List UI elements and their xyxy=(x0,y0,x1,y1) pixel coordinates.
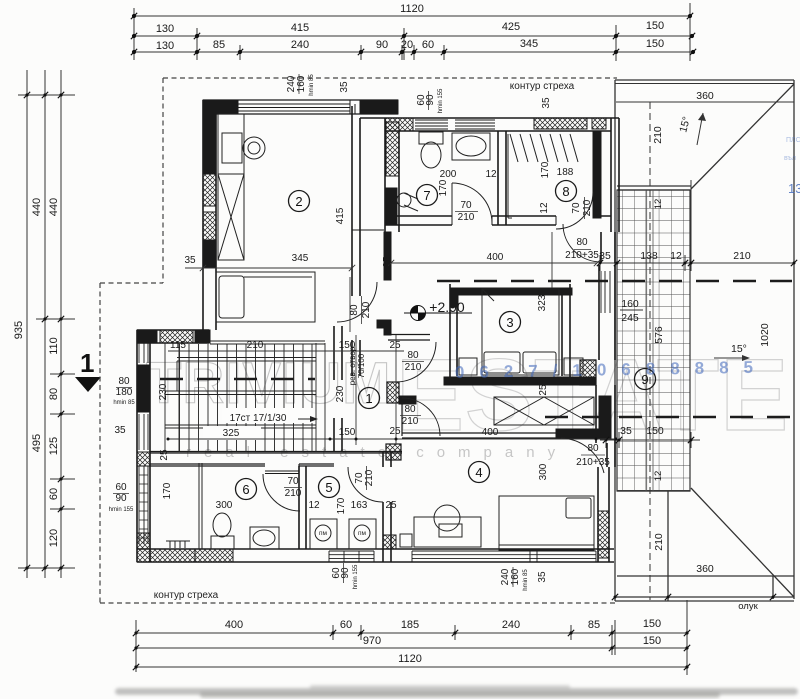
svg-text:85: 85 xyxy=(213,39,225,51)
svg-text:ПЛС: ПЛС xyxy=(786,137,800,144)
svg-text:115: 115 xyxy=(170,340,186,351)
svg-text:188: 188 xyxy=(557,167,574,178)
svg-text:3: 3 xyxy=(506,315,513,330)
svg-text:1: 1 xyxy=(365,391,372,406)
svg-text:185: 185 xyxy=(401,619,419,631)
svg-text:35: 35 xyxy=(114,425,126,436)
svg-text:hmin 155: hmin 155 xyxy=(109,507,134,513)
svg-text:325: 325 xyxy=(223,428,240,439)
svg-text:90: 90 xyxy=(376,39,388,51)
svg-text:1120: 1120 xyxy=(398,653,422,665)
svg-text:90: 90 xyxy=(115,493,127,504)
svg-text:90: 90 xyxy=(340,567,351,579)
svg-text:400: 400 xyxy=(482,427,499,438)
svg-text:80: 80 xyxy=(48,388,60,400)
svg-text:170: 170 xyxy=(438,179,449,196)
svg-text:576: 576 xyxy=(653,326,665,344)
svg-text:210: 210 xyxy=(364,469,375,486)
svg-text:210: 210 xyxy=(361,301,372,318)
svg-text:323: 323 xyxy=(537,294,548,311)
svg-text:12: 12 xyxy=(485,169,497,180)
svg-text:35: 35 xyxy=(537,571,548,583)
svg-text:4: 4 xyxy=(475,465,482,480)
svg-text:415: 415 xyxy=(291,22,309,34)
svg-text:35: 35 xyxy=(184,255,196,266)
svg-text:70/100: 70/100 xyxy=(357,353,366,378)
svg-text:440: 440 xyxy=(48,198,60,216)
svg-text:210+35: 210+35 xyxy=(565,250,599,261)
svg-text:210: 210 xyxy=(653,533,665,551)
svg-text:110: 110 xyxy=(48,337,60,355)
svg-text:1: 1 xyxy=(80,348,94,378)
svg-text:230: 230 xyxy=(335,385,346,402)
svg-text:25: 25 xyxy=(389,340,401,351)
svg-text:5: 5 xyxy=(325,480,332,495)
svg-text:60: 60 xyxy=(340,619,352,631)
svg-text:17ст 17/1/30: 17ст 17/1/30 xyxy=(230,413,287,424)
svg-text:130: 130 xyxy=(156,40,174,52)
svg-text:210: 210 xyxy=(733,250,751,262)
svg-text:пм: пм xyxy=(358,530,367,537)
svg-text:60: 60 xyxy=(115,482,127,493)
svg-text:рев. отвор: рев. отвор xyxy=(348,346,357,385)
svg-text:360: 360 xyxy=(696,90,714,102)
svg-text:935: 935 xyxy=(13,321,25,339)
svg-text:70: 70 xyxy=(287,476,299,487)
svg-text:150: 150 xyxy=(339,427,356,438)
svg-text:300: 300 xyxy=(216,500,233,511)
svg-text:hmin 85: hmin 85 xyxy=(523,569,529,591)
svg-text:300: 300 xyxy=(538,463,549,480)
svg-text:80: 80 xyxy=(407,350,419,361)
svg-text:7: 7 xyxy=(423,188,430,203)
svg-text:12: 12 xyxy=(308,500,320,511)
svg-text:35: 35 xyxy=(620,425,632,437)
svg-text:hmin 85: hmin 85 xyxy=(309,74,315,96)
svg-text:245: 245 xyxy=(621,312,639,324)
svg-text:контур стреха: контур стреха xyxy=(154,590,219,601)
svg-text:8: 8 xyxy=(562,184,569,199)
svg-text:210: 210 xyxy=(405,362,422,373)
svg-text:80: 80 xyxy=(118,376,130,387)
svg-text:160: 160 xyxy=(296,75,307,92)
svg-text:163: 163 xyxy=(351,500,368,511)
svg-text:125: 125 xyxy=(48,437,60,455)
svg-text:345: 345 xyxy=(292,253,309,264)
svg-text:210: 210 xyxy=(458,212,475,223)
svg-text:12: 12 xyxy=(670,250,682,262)
svg-text:170: 170 xyxy=(540,161,551,178)
svg-text:130: 130 xyxy=(156,23,174,35)
svg-text:80: 80 xyxy=(576,237,588,248)
svg-text:150: 150 xyxy=(339,340,356,351)
svg-text:25: 25 xyxy=(538,384,549,396)
svg-text:80: 80 xyxy=(587,443,599,454)
svg-text:150: 150 xyxy=(643,618,661,630)
svg-text:6: 6 xyxy=(242,482,249,497)
svg-text:400: 400 xyxy=(487,252,504,263)
svg-text:контур стреха: контур стреха xyxy=(510,81,575,92)
svg-text:150: 150 xyxy=(643,635,661,647)
svg-text:hmin 155: hmin 155 xyxy=(353,564,359,589)
svg-text:hmin 85: hmin 85 xyxy=(113,400,135,406)
svg-text:440: 440 xyxy=(31,198,43,216)
svg-text:25: 25 xyxy=(382,256,393,268)
svg-text:12: 12 xyxy=(539,202,550,214)
svg-text:425: 425 xyxy=(502,21,520,33)
svg-text:35: 35 xyxy=(339,81,350,93)
svg-text:15°: 15° xyxy=(731,343,747,355)
svg-text:70: 70 xyxy=(571,202,582,214)
svg-text:90: 90 xyxy=(425,94,436,106)
svg-text:210: 210 xyxy=(652,126,664,144)
svg-text:210+35: 210+35 xyxy=(576,457,610,468)
svg-text:олук: олук xyxy=(738,601,758,612)
svg-text:230: 230 xyxy=(158,383,169,400)
svg-text:240: 240 xyxy=(502,619,520,631)
svg-text:210: 210 xyxy=(402,416,419,427)
svg-text:210: 210 xyxy=(582,199,593,216)
svg-text:20: 20 xyxy=(401,39,413,51)
svg-text:70: 70 xyxy=(460,200,472,211)
svg-text:въл: въл xyxy=(784,155,796,162)
svg-text:210: 210 xyxy=(247,340,264,351)
svg-text:12: 12 xyxy=(653,199,664,210)
svg-text:1120: 1120 xyxy=(400,3,424,15)
svg-text:пм: пм xyxy=(319,530,328,537)
svg-text:80: 80 xyxy=(349,304,360,316)
svg-text:12: 12 xyxy=(653,471,664,482)
svg-text:120: 120 xyxy=(48,529,60,547)
svg-text:160: 160 xyxy=(621,298,639,310)
svg-text:970: 970 xyxy=(363,635,381,647)
svg-text:210: 210 xyxy=(285,488,302,499)
svg-text:80: 80 xyxy=(404,404,416,415)
svg-text:2: 2 xyxy=(295,194,302,209)
svg-text:25: 25 xyxy=(385,500,397,511)
svg-text:1020: 1020 xyxy=(759,323,771,347)
svg-text:138: 138 xyxy=(640,250,658,262)
svg-text:60: 60 xyxy=(422,39,434,51)
svg-text:360: 360 xyxy=(696,563,714,575)
svg-text:150: 150 xyxy=(646,20,664,32)
svg-text:495: 495 xyxy=(31,434,43,452)
svg-text:150: 150 xyxy=(646,38,664,50)
svg-text:400: 400 xyxy=(225,619,243,631)
svg-text:240: 240 xyxy=(291,39,309,51)
svg-text:170: 170 xyxy=(162,482,173,499)
svg-text:25: 25 xyxy=(159,449,170,461)
svg-text:35: 35 xyxy=(541,97,552,109)
svg-text:hmin 155: hmin 155 xyxy=(438,88,444,113)
svg-text:25: 25 xyxy=(389,426,401,437)
svg-text:85: 85 xyxy=(588,619,600,631)
svg-text:170: 170 xyxy=(336,497,347,514)
svg-text:60: 60 xyxy=(48,488,60,500)
svg-text:150: 150 xyxy=(646,425,664,437)
svg-text:180: 180 xyxy=(116,387,133,398)
svg-text:415: 415 xyxy=(335,207,346,224)
svg-text:200: 200 xyxy=(440,169,457,180)
svg-text:13: 13 xyxy=(788,181,800,196)
svg-text:160: 160 xyxy=(510,568,521,585)
svg-text:345: 345 xyxy=(520,38,538,50)
